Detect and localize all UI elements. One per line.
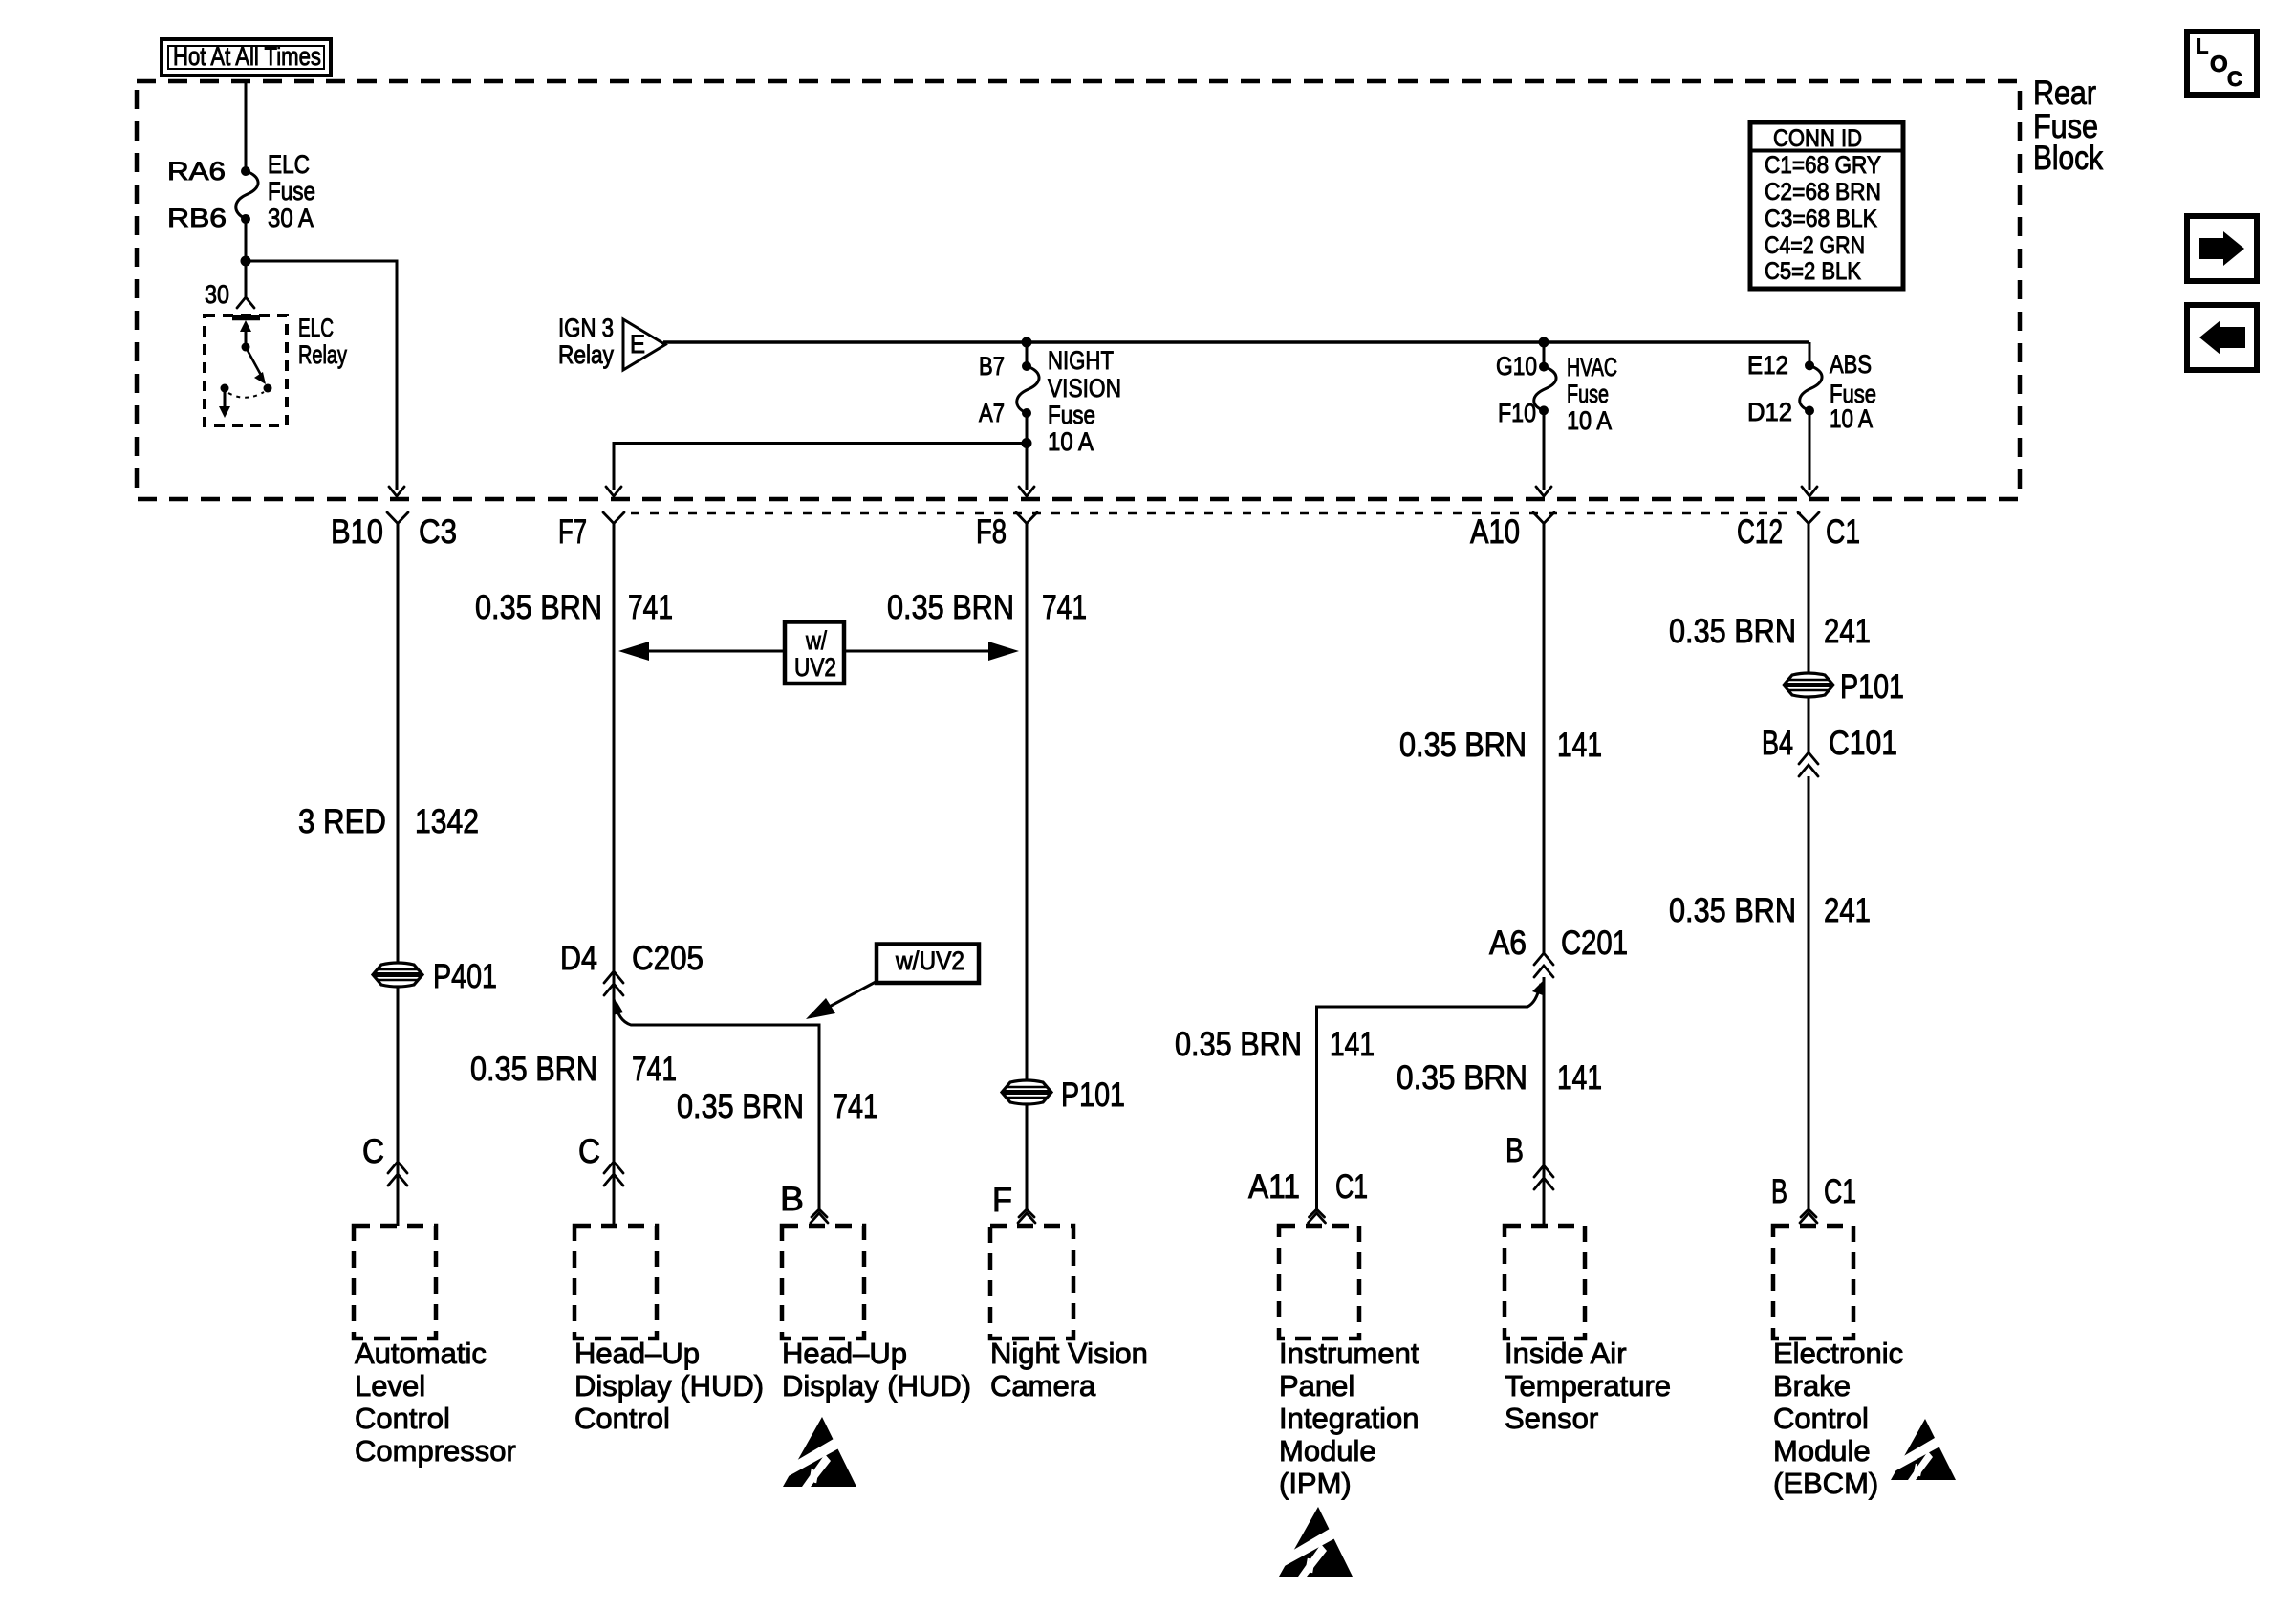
svg-text:P101: P101 [1840, 668, 1904, 706]
svg-text:3 RED: 3 RED [298, 803, 386, 840]
svg-text:HVAC: HVAC [1567, 353, 1617, 381]
wire: col4 F8 down to P101 [1026, 524, 1029, 1081]
label: Rear Fuse Block [2033, 75, 2103, 177]
connector Y at IPM [1310, 1209, 1325, 1217]
relay ELC dashed box [205, 315, 287, 425]
icon: left arrow box [2187, 305, 2257, 370]
svg-text:C: C [578, 1133, 600, 1170]
svg-text:B: B [1505, 1132, 1524, 1169]
svg-text:0.35 BRN: 0.35 BRN [1669, 892, 1796, 929]
svg-text:Block: Block [2033, 140, 2103, 177]
svg-text:D4: D4 [560, 940, 597, 977]
svg-text:Automatic: Automatic [355, 1337, 487, 1370]
svg-text:10 A: 10 A [1048, 427, 1094, 456]
double chevron col2 [604, 1162, 623, 1173]
wire: col6 A10 down to C201 [1543, 524, 1546, 954]
svg-text:Head–Up: Head–Up [782, 1337, 907, 1370]
svg-text:P401: P401 [433, 958, 497, 995]
svg-text:A6: A6 [1489, 925, 1527, 962]
svg-text:Rear: Rear [2033, 75, 2096, 112]
svg-text:0.35 BRN: 0.35 BRN [677, 1088, 804, 1125]
svg-text:Compressor: Compressor [355, 1434, 516, 1468]
wire: P401 to ALC compressor [397, 986, 400, 1226]
svg-text:L: L [2196, 34, 2208, 58]
wire: IGN3 feed bus [663, 340, 1809, 344]
connector Y at F8 [1016, 512, 1037, 524]
svg-text:D12: D12 [1747, 398, 1792, 426]
ESD symbol at EBCM [1891, 1419, 1956, 1480]
connector C205 (D4) [560, 940, 704, 995]
arrow into block edge at F8 [1019, 487, 1034, 496]
module box: Electronic Brake Control Module (EBCM) [1773, 1226, 1853, 1338]
svg-text:0.35 BRN: 0.35 BRN [1399, 727, 1527, 764]
wire: battery feed from top [245, 83, 248, 171]
connector Y at A10 [1533, 512, 1554, 524]
svg-text:B4: B4 [1762, 725, 1793, 762]
svg-text:A10: A10 [1470, 513, 1520, 551]
svg-text:C: C [362, 1133, 384, 1170]
svg-text:141: 141 [1330, 1026, 1375, 1063]
connector Y at B10/C3 [387, 512, 408, 524]
svg-text:1342: 1342 [415, 803, 479, 840]
svg-text:UV2: UV2 [794, 653, 836, 682]
node: junction at NIGHT VISION fuse [1022, 337, 1032, 348]
svg-text:C201: C201 [1561, 925, 1628, 962]
icon: LOC box [2187, 32, 2257, 95]
module box: Inside Air Temperature Sensor [1505, 1226, 1585, 1338]
small arrowhead at IPM branch top [1532, 981, 1543, 995]
icon: right arrow box [2187, 216, 2257, 281]
svg-text:VISION: VISION [1048, 374, 1121, 402]
svg-text:C3: C3 [419, 513, 457, 551]
svg-text:Level: Level [355, 1369, 425, 1403]
svg-text:10 A: 10 A [1567, 406, 1612, 435]
wire: branch to F7 [614, 444, 1027, 490]
svg-text:(EBCM): (EBCM) [1773, 1467, 1878, 1500]
fuse HVAC (G10/F10) [1496, 342, 1617, 435]
svg-text:(IPM): (IPM) [1279, 1467, 1352, 1500]
svg-text:C3=68 BLK: C3=68 BLK [1765, 206, 1877, 232]
svg-text:Display (HUD): Display (HUD) [782, 1369, 971, 1403]
svg-text:NIGHT: NIGHT [1048, 346, 1114, 375]
svg-text:ABS: ABS [1830, 350, 1872, 379]
relay ELC internals [219, 318, 272, 419]
wire: ABS fuse output to C12 [1809, 411, 1811, 490]
svg-text:E: E [630, 330, 645, 359]
wire: col1 B10 down to P401 [397, 524, 400, 965]
svg-text:741: 741 [833, 1088, 878, 1125]
svg-text:741: 741 [628, 589, 673, 626]
svg-text:141: 141 [1557, 727, 1602, 764]
thin dashed connector boundary line [631, 512, 1801, 515]
svg-text:ELC: ELC [298, 314, 334, 342]
svg-text:0.35 BRN: 0.35 BRN [1397, 1059, 1527, 1097]
svg-text:Inside Air: Inside Air [1505, 1337, 1627, 1370]
double chevron col1 [388, 1162, 407, 1173]
svg-text:C1: C1 [1824, 1173, 1856, 1210]
fuse ELC (RA6/RB6) [167, 150, 315, 232]
svg-text:0.35 BRN: 0.35 BRN [1669, 613, 1796, 650]
IGN 3 Relay source triangle E [558, 314, 665, 370]
module box: Automatic Level Control Compressor [354, 1226, 436, 1338]
svg-text:Module: Module [1279, 1434, 1376, 1468]
wire: IPM branch joining C201 [1317, 984, 1542, 1209]
module box: Head-Up Display (HUD) Control [574, 1226, 657, 1338]
svg-text:Fuse: Fuse [1567, 380, 1609, 408]
svg-text:C101: C101 [1829, 725, 1897, 762]
svg-text:RA6: RA6 [167, 157, 226, 185]
svg-text:C1: C1 [1335, 1168, 1368, 1206]
svg-text:Fuse: Fuse [1048, 401, 1095, 429]
node: junction to F7 branch [1022, 438, 1032, 448]
svg-text:IGN 3: IGN 3 [558, 314, 614, 342]
w/UV2 callout box with arrow [806, 945, 979, 1020]
module box: Head-Up Display (HUD) [782, 1226, 864, 1338]
double chevron col6 [1534, 1165, 1553, 1177]
svg-text:C1=68 GRY: C1=68 GRY [1765, 152, 1881, 179]
svg-text:F: F [992, 1182, 1012, 1219]
svg-text:Integration: Integration [1279, 1402, 1419, 1435]
ESD symbol at IPM [1279, 1507, 1353, 1577]
svg-text:0.35 BRN: 0.35 BRN [470, 1051, 597, 1088]
node: junction at HVAC fuse [1539, 337, 1549, 348]
svg-text:Fuse: Fuse [268, 177, 315, 206]
connector Y at C12/C1 [1798, 512, 1819, 524]
module box: Instrument Panel Integration Module (IPM) [1279, 1226, 1359, 1338]
fuse ABS (E12/D12) [1747, 342, 1876, 433]
svg-text:C4=2 GRN: C4=2 GRN [1765, 232, 1865, 259]
small arrowhead at branch top [613, 1001, 623, 1015]
svg-text:C: C [2227, 67, 2242, 91]
svg-text:P101: P101 [1061, 1077, 1125, 1114]
connector C201 (A6) [1489, 925, 1628, 977]
svg-text:C5=2 BLK: C5=2 BLK [1765, 258, 1861, 285]
svg-text:Control: Control [1773, 1402, 1869, 1435]
wire: HVAC fuse output to A10 [1543, 410, 1546, 490]
svg-text:F7: F7 [558, 513, 587, 551]
svg-text:Temperature: Temperature [1505, 1369, 1671, 1403]
svg-text:Relay: Relay [558, 340, 614, 369]
wire: C101 down to EBCM [1808, 776, 1810, 1209]
chevron into relay [237, 297, 254, 308]
svg-text:F8: F8 [976, 513, 1007, 551]
wire: branch right to B10 [246, 261, 397, 490]
arrow into block edge at C12 [1802, 487, 1817, 496]
arrow into block edge at A10 [1536, 487, 1551, 496]
connector Y at EBCM [1801, 1209, 1816, 1217]
svg-text:141: 141 [1557, 1059, 1602, 1097]
svg-text:CONN ID: CONN ID [1773, 125, 1862, 152]
connector Y at HUD display [812, 1209, 827, 1217]
svg-text:30 A: 30 A [268, 204, 314, 232]
svg-text:B7: B7 [979, 352, 1005, 381]
svg-text:O: O [2210, 52, 2228, 77]
ESD symbol at HUD [783, 1417, 856, 1487]
svg-text:C12: C12 [1737, 513, 1783, 551]
splice P101 (night vision) [1002, 1077, 1125, 1114]
svg-text:Instrument: Instrument [1279, 1337, 1419, 1370]
svg-text:C2=68 BRN: C2=68 BRN [1765, 179, 1881, 206]
svg-text:Brake: Brake [1773, 1369, 1851, 1403]
module box: Night Vision Camera [990, 1226, 1073, 1338]
svg-text:0.35 BRN: 0.35 BRN [887, 589, 1014, 626]
splice P101 (EBCM circuit) [1784, 668, 1904, 706]
Rear Fuse Block dashed outline [137, 81, 2020, 499]
svg-text:0.35 BRN: 0.35 BRN [1175, 1026, 1302, 1063]
wire: col7 C1 down from C12 [1808, 524, 1810, 675]
svg-text:w/UV2: w/UV2 [895, 946, 964, 975]
connector C101 (B4) [1762, 725, 1897, 776]
label box: Hot At All Times [162, 39, 331, 76]
wire: branch from C205 to HUD display [614, 999, 819, 1209]
svg-text:0.35 BRN: 0.35 BRN [475, 589, 602, 626]
svg-text:Night Vision: Night Vision [990, 1337, 1148, 1370]
svg-text:Relay: Relay [298, 340, 347, 369]
wire: col2 F7 down to C205 [613, 524, 616, 1227]
fuse NIGHT VISION (B7/A7) [979, 342, 1121, 456]
svg-text:Control: Control [355, 1402, 450, 1435]
connector Y at F7 [603, 512, 624, 524]
w/UV2 range box with double arrow [618, 622, 1019, 685]
svg-text:Sensor: Sensor [1505, 1402, 1598, 1435]
arrow into fuse block edge at B10 [389, 487, 404, 496]
svg-text:RB6: RB6 [167, 204, 227, 232]
splice P401 [373, 958, 497, 995]
svg-text:C1: C1 [1826, 513, 1860, 551]
svg-text:Control: Control [574, 1402, 670, 1435]
svg-text:241: 241 [1824, 613, 1871, 650]
svg-text:G10: G10 [1496, 352, 1537, 381]
svg-text:Panel: Panel [1279, 1369, 1354, 1403]
wire: P101 to night vision camera [1026, 1103, 1029, 1209]
svg-text:741: 741 [632, 1051, 677, 1088]
CONN ID table [1750, 122, 1903, 289]
svg-text:A7: A7 [979, 399, 1005, 427]
arrow into block edge at F7 [606, 487, 621, 496]
connector Y at night vision camera [1019, 1209, 1034, 1217]
svg-text:Hot At All Times: Hot At All Times [173, 42, 321, 71]
svg-text:A11: A11 [1248, 1168, 1300, 1206]
wire: P101 down to C101 [1808, 696, 1810, 752]
svg-text:241: 241 [1824, 892, 1871, 929]
wire: col6 C201 down to sensor [1543, 977, 1546, 1226]
wire: fuse output [245, 219, 248, 299]
svg-text:B: B [780, 1181, 804, 1218]
svg-text:E12: E12 [1747, 351, 1788, 380]
svg-text:Electronic: Electronic [1773, 1337, 1903, 1370]
svg-text:C205: C205 [632, 940, 704, 977]
wire: NIGHT VISION fuse output to F8 [1026, 413, 1029, 490]
svg-text:Display (HUD): Display (HUD) [574, 1369, 764, 1403]
svg-text:ELC: ELC [268, 150, 310, 179]
svg-text:30: 30 [205, 280, 229, 309]
svg-text:B: B [1771, 1173, 1787, 1210]
svg-text:F10: F10 [1498, 399, 1536, 427]
svg-text:741: 741 [1042, 589, 1087, 626]
svg-text:Module: Module [1773, 1434, 1871, 1468]
node: junction at fuse output [241, 256, 251, 267]
svg-text:Head–Up: Head–Up [574, 1337, 700, 1370]
svg-text:B10: B10 [331, 513, 383, 551]
svg-text:Camera: Camera [990, 1369, 1096, 1403]
svg-text:w/: w/ [805, 626, 827, 655]
svg-text:10 A: 10 A [1830, 404, 1873, 433]
